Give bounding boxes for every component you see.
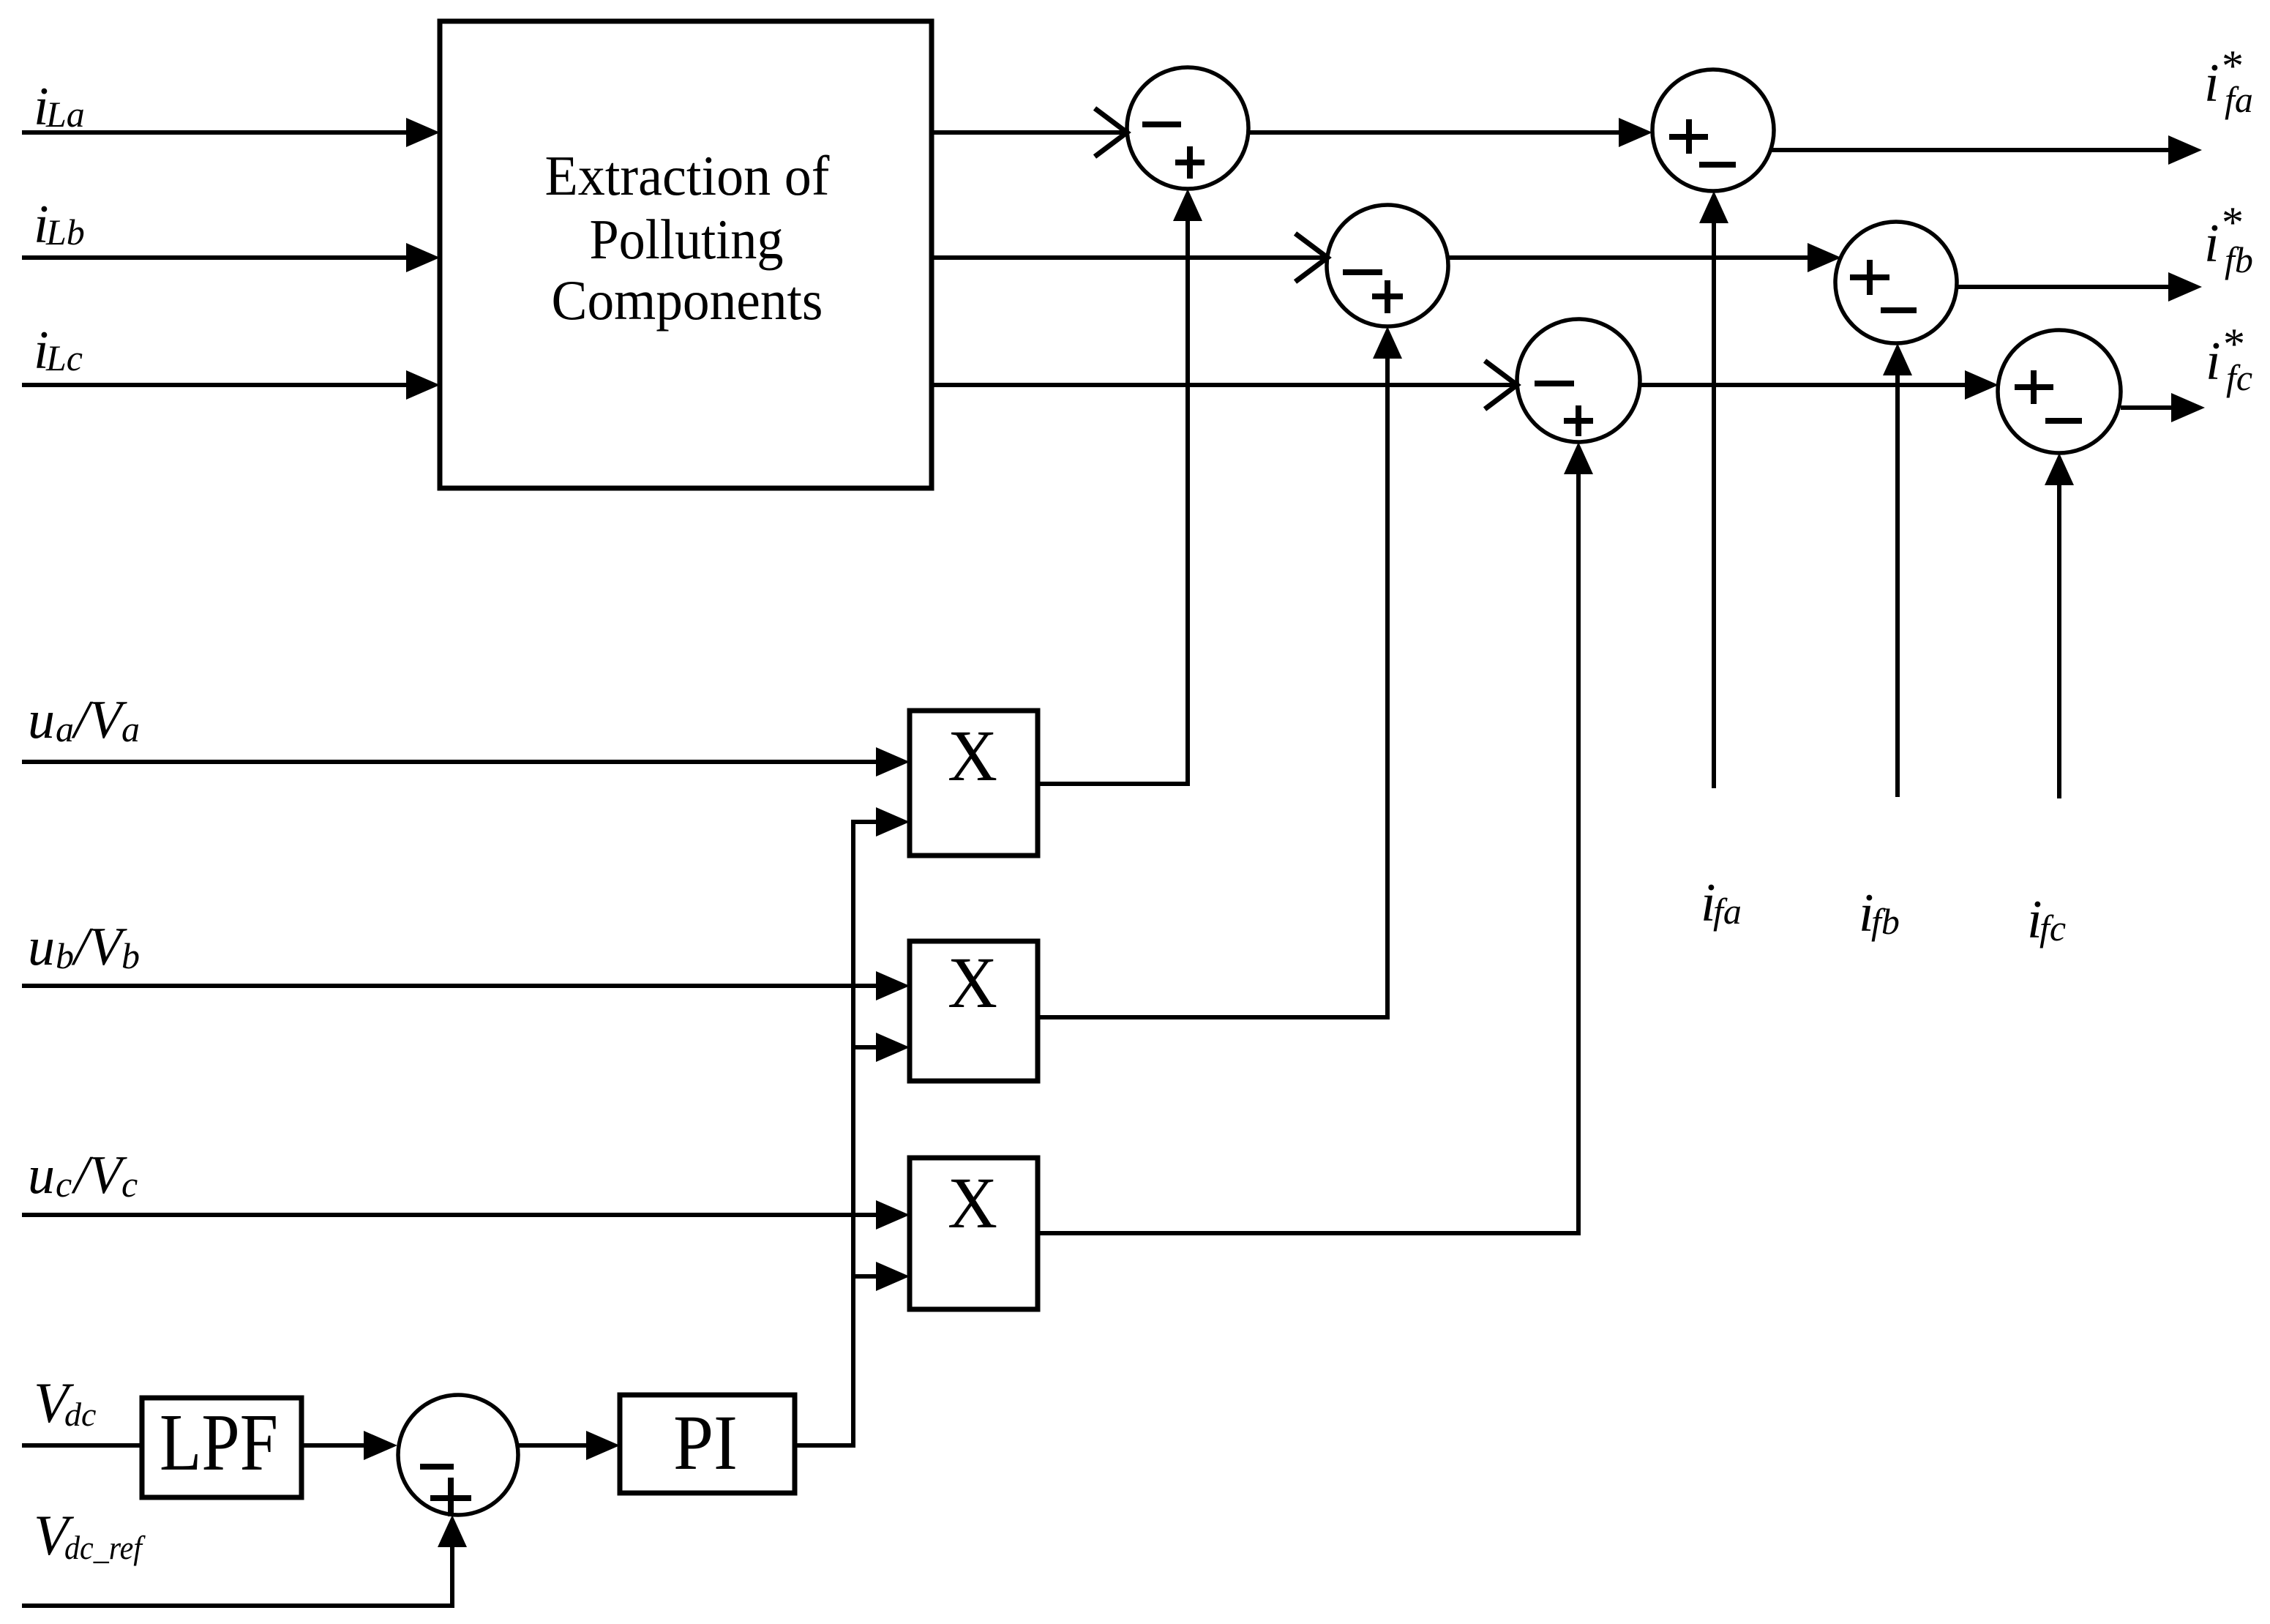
svg-text:fc: fc	[2226, 357, 2252, 398]
svg-text:fb: fb	[1871, 901, 1900, 942]
input label ub/Vb	[28, 917, 140, 977]
wire A2 output i*fb	[1957, 272, 2202, 302]
svg-text:Lc: Lc	[45, 337, 83, 378]
wire feedback ifc vertical into A3	[2045, 453, 2074, 798]
input label Vdc_ref	[34, 1503, 146, 1567]
input label iLc	[34, 321, 83, 381]
svg-text:Extraction of: Extraction of	[545, 144, 830, 207]
svg-text:b: b	[56, 935, 74, 976]
wire ub/Vb input	[22, 971, 910, 1000]
input label uc/Vc	[28, 1145, 138, 1205]
multiplier X1	[910, 711, 1038, 856]
wire iLa input	[22, 118, 440, 147]
svg-text:fa: fa	[2225, 79, 2253, 120]
summing junction S1 (minus/plus)	[1127, 67, 1248, 189]
adder A3 (plus/minus)	[1998, 330, 2121, 453]
wire S4 to PI	[518, 1431, 620, 1460]
wire X1 output to S1	[1038, 189, 1202, 786]
svg-text:Polluting: Polluting	[590, 208, 784, 271]
svg-text:c: c	[56, 1164, 72, 1205]
svg-text:a: a	[56, 708, 74, 749]
output label i*fa	[2204, 42, 2253, 120]
svg-text:La: La	[45, 94, 85, 135]
output label i*fb	[2204, 198, 2253, 280]
svg-text:a: a	[121, 708, 140, 749]
input label ua/Va	[28, 690, 140, 750]
summing junction S4 (minus/plus)	[398, 1395, 518, 1516]
output label i*fc	[2206, 320, 2252, 398]
summing junction S2 (minus/plus)	[1327, 205, 1448, 326]
wire A3 output i*fc	[2121, 393, 2205, 422]
svg-text:Components: Components	[552, 269, 823, 332]
svg-text:Lb: Lb	[45, 212, 85, 252]
svg-text:fa: fa	[1713, 891, 1742, 932]
svg-text:b: b	[121, 935, 140, 976]
wire PI feedback vertical to multipliers	[851, 807, 910, 1445]
wire X3 output to S3	[1038, 442, 1593, 1235]
wire A1 output i*fa	[1770, 135, 2202, 165]
svg-text:X: X	[948, 1162, 997, 1243]
wire iLb input	[22, 243, 440, 272]
wire LPF to S4	[301, 1431, 397, 1460]
svg-text:X: X	[948, 715, 997, 796]
input label iLb	[34, 195, 85, 255]
wire S3 to A3	[1640, 370, 1999, 400]
block: Extraction of Polluting Components	[440, 21, 932, 488]
wire box output c	[932, 361, 1517, 409]
svg-text:i: i	[2206, 332, 2221, 392]
wire feedback ifb vertical into A2	[1883, 343, 1912, 797]
svg-text:c: c	[121, 1164, 138, 1205]
wire stub to X3 second input	[851, 1262, 910, 1291]
svg-text:dc: dc	[64, 1396, 96, 1433]
feedback label ifc	[2027, 890, 2066, 950]
wire ua/Va input	[22, 747, 910, 777]
wire S1 to A1	[1248, 118, 1652, 147]
block LPF	[142, 1398, 301, 1497]
wire Vdc into LPF	[22, 1443, 142, 1448]
multiplier X2	[910, 941, 1038, 1081]
feedback label ifa	[1701, 873, 1742, 933]
svg-text:fc: fc	[2039, 908, 2066, 948]
wire box output b	[932, 233, 1327, 282]
svg-text:LPF: LPF	[160, 1398, 278, 1488]
svg-text:/V: /V	[71, 917, 128, 977]
summing junction S3 (minus/plus)	[1517, 319, 1640, 442]
input label iLa	[34, 77, 85, 137]
wire Vdc_ref into S4	[22, 1515, 467, 1608]
adder A1 (plus/minus)	[1652, 70, 1774, 191]
svg-text:u: u	[28, 1145, 55, 1205]
svg-text:u: u	[28, 917, 55, 977]
feedback label ifb	[1859, 883, 1900, 943]
wire feedback ifa vertical into A1	[1699, 191, 1728, 788]
svg-text:fb: fb	[2225, 239, 2253, 280]
svg-text:i: i	[2204, 214, 2220, 274]
wire uc/Vc input	[22, 1200, 910, 1230]
input label Vdc	[34, 1371, 96, 1434]
svg-text:i: i	[2204, 53, 2220, 113]
block PI	[620, 1395, 795, 1493]
wire iLc input	[22, 370, 440, 400]
wire stub to X2 second input	[851, 1033, 910, 1062]
svg-text:/V: /V	[71, 690, 128, 750]
adder A2 (plus/minus)	[1835, 222, 1957, 343]
svg-text:u: u	[28, 690, 55, 750]
wire S2 to A2	[1447, 243, 1841, 272]
svg-text:/V: /V	[71, 1145, 128, 1205]
svg-text:X: X	[948, 942, 997, 1023]
wire X2 output to S2	[1038, 326, 1402, 1019]
svg-text:dc_ref: dc_ref	[64, 1529, 146, 1566]
multiplier X3	[910, 1158, 1038, 1309]
svg-text:PI: PI	[673, 1400, 738, 1486]
wire PI output to vertical	[795, 1443, 855, 1448]
wire box output a	[932, 108, 1127, 157]
